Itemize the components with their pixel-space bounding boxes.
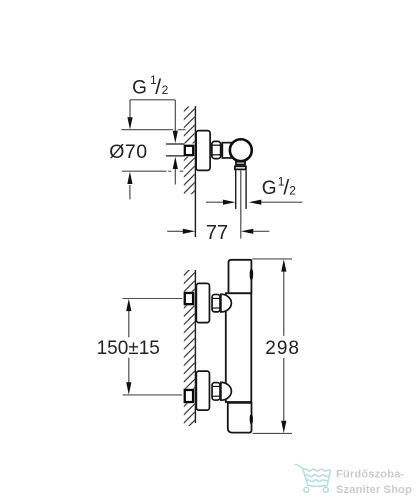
wall face line (top view)	[194, 106, 196, 237]
pipe nipple inside wall (thick square)	[185, 146, 193, 155]
label G 1/2 (right, hose thread)	[262, 174, 296, 199]
298 lower extension line	[252, 432, 292, 434]
upper union ball	[221, 294, 231, 312]
upper supply nipple in wall (thick square)	[185, 293, 193, 304]
150±15 upper extension line	[123, 298, 183, 300]
outlet nut below valve	[235, 166, 246, 169]
svg-text:2: 2	[289, 183, 296, 197]
svg-text:298: 298	[265, 338, 300, 359]
G1/2 arrow to pipe top	[174, 100, 176, 131]
lower escutcheon	[196, 371, 209, 410]
svg-text:G: G	[132, 77, 147, 98]
svg-text:Fürdőszoba-: Fürdőszoba-	[336, 468, 404, 480]
valve body circle (side view of handle)	[230, 139, 252, 161]
lower union ball	[221, 382, 232, 400]
G1/2 hose dimension line left part	[206, 201, 223, 203]
escutcheon Ø70 (top view)	[196, 131, 210, 171]
svg-text:Ø70: Ø70	[109, 141, 148, 163]
svg-text:/: /	[155, 76, 161, 99]
union body between nut and valve	[222, 143, 231, 158]
77 dimension line right part	[253, 230, 269, 232]
wall hatching (top view, above inlet pipe)	[184, 107, 195, 144]
lower side detail ellipse	[251, 415, 253, 424]
upper side detail ellipse (knob screw)	[251, 270, 253, 280]
77 dimension line left part	[167, 230, 183, 232]
Ø70 lower extension line	[122, 170, 183, 172]
nut facet lines	[211, 144, 221, 146]
svg-text:150±15: 150±15	[97, 338, 160, 359]
thermostat body top cap	[229, 260, 252, 293]
lower union nut	[212, 383, 220, 401]
svg-text:Szaniter Shop: Szaniter Shop	[336, 484, 412, 496]
label G 1/2 (top left)	[132, 73, 169, 99]
wall hatching (bottom view, above upper union)	[184, 270, 195, 292]
leader bracket for top-left G 1/2	[130, 99, 175, 101]
Ø70 upper extension line	[121, 129, 185, 131]
cart icon (light teal shopping basket with waves)	[295, 465, 330, 493]
outlet collar below valve	[236, 162, 245, 165]
wall hatching (top view, below inlet pipe)	[184, 157, 195, 195]
svg-text:G: G	[262, 178, 277, 199]
union nut (top view)	[212, 141, 221, 158]
wall face line (bottom view)	[194, 270, 196, 423]
thermostat body bottom cap	[228, 403, 252, 433]
svg-text:2: 2	[162, 83, 169, 97]
svg-text:77: 77	[206, 222, 228, 244]
shower hose nipple (vertical pipe down)	[236, 170, 246, 209]
thermostat body middle section	[226, 293, 252, 402]
wall hatching (bottom view, between unions)	[184, 305, 195, 388]
Ø70 lower arrow (up)	[129, 185, 131, 199]
inlet pipe (horizontal G1/2 supply through wall)	[166, 144, 185, 156]
upper union nut	[212, 294, 220, 311]
298 dimension line with arrows	[281, 259, 286, 271]
lower supply nipple in wall (thick square)	[185, 390, 193, 402]
G1/2 hose dimension line right part	[261, 201, 302, 203]
wall hatching (bottom view, below lower union)	[184, 403, 195, 426]
upper escutcheon	[196, 283, 209, 322]
150±15 dimension line with arrows	[126, 299, 131, 311]
150±15 lower extension line	[123, 394, 183, 396]
298 upper extension line	[252, 258, 292, 260]
hose axis centre line	[240, 171, 242, 239]
G1/2 arrow to pipe bottom (from below)	[174, 169, 176, 185]
Ø70 upper arrow (down)	[129, 100, 131, 118]
